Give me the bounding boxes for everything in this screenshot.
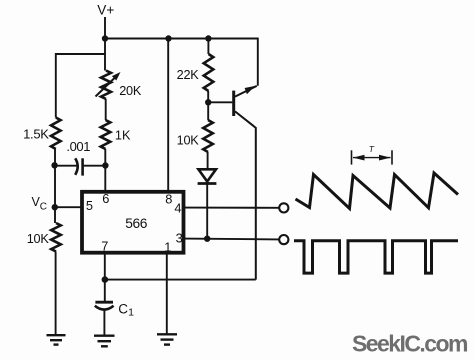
wire V+ stub xyxy=(104,17,106,39)
node junction dot F (22K / 10K / base) xyxy=(205,99,211,105)
wire 20K bottom to 1K top xyxy=(105,99,107,120)
svg-text:10K: 10K xyxy=(177,133,200,147)
svg-text:566: 566 xyxy=(125,216,147,231)
resistor R 1K xyxy=(101,120,111,149)
wire 1K bottom to IC pin 6 xyxy=(104,149,106,190)
wire 10K to ground xyxy=(55,252,57,336)
node junction dot A (V+ rail / 20K branch) xyxy=(102,35,108,41)
resistor R 1.5K xyxy=(51,118,61,150)
wire pin 1 to ground xyxy=(166,253,168,334)
wire diode cathode down to pin 3 net xyxy=(206,184,208,239)
capacitor .001 straight plate xyxy=(81,158,84,175)
svg-text:C: C xyxy=(118,301,128,316)
svg-text:20K: 20K xyxy=(119,84,142,98)
op IC U1 566 box xyxy=(82,192,184,253)
diode D1 cathode bar xyxy=(198,182,217,185)
transistor Q1 base bar xyxy=(232,91,235,116)
svg-text:22K: 22K xyxy=(177,68,200,82)
resistor R 22K xyxy=(204,54,214,91)
svg-text:4: 4 xyxy=(174,201,181,216)
wire pin 7 down to C1 xyxy=(104,253,106,302)
wire top rail xyxy=(105,39,258,86)
capacitor C1 top plate xyxy=(95,301,113,304)
resistor R 10K (right) xyxy=(203,120,213,152)
svg-text:3: 3 xyxy=(176,231,183,246)
node junction dot B (V+ rail / pin 8 branch) xyxy=(165,35,171,41)
wire 22K branch top xyxy=(207,39,209,55)
svg-text:C: C xyxy=(40,201,47,212)
capacitor C1 curved plate xyxy=(95,306,114,310)
wire rail to 20K top xyxy=(104,39,106,71)
transistor Q1 emitter xyxy=(235,86,257,97)
ground G3 xyxy=(157,334,177,344)
svg-text:8: 8 xyxy=(165,192,172,207)
wire left branch top (rail to 1.5K) xyxy=(56,54,105,118)
wire pin 3 to square terminal xyxy=(184,238,280,241)
transistor Q1 base wire xyxy=(208,101,232,103)
resistor R 10K (left) xyxy=(51,223,61,252)
ground G2 xyxy=(94,336,115,347)
node junction dot C (V+ rail / 22K branch) xyxy=(205,35,211,41)
svg-text:6: 6 xyxy=(102,191,109,206)
terminal circle T2 (square out) xyxy=(279,235,288,244)
node junction dot H (pin 7 / feedback wire) xyxy=(102,276,109,283)
resistor R 20K (variable) xyxy=(101,71,111,100)
svg-text:1.5K: 1.5K xyxy=(23,127,49,142)
svg-text:10K: 10K xyxy=(27,232,50,246)
wire VC to IC pin 5 xyxy=(55,206,81,208)
wire pin 4 to sawtooth terminal xyxy=(184,207,280,209)
svg-text:V+: V+ xyxy=(97,3,114,18)
svg-text:T: T xyxy=(369,144,375,154)
arrow of 20K potentiometer xyxy=(96,78,115,97)
node junction dot G (diode / pin 3 wire) xyxy=(204,236,210,242)
T period marker right tick xyxy=(391,150,393,164)
svg-text:1: 1 xyxy=(164,239,171,254)
capacitor .001 right wire xyxy=(83,165,106,167)
wire feedback bottom (pin7 dot to collector line) xyxy=(105,279,256,281)
svg-text:7: 7 xyxy=(101,238,108,253)
svg-text:SeekIC.com: SeekIC.com xyxy=(352,330,468,356)
svg-text:.001: .001 xyxy=(66,139,90,154)
node junction dot E (1.5K / cap .001 left) xyxy=(51,162,57,168)
svg-text:5: 5 xyxy=(86,198,93,213)
wire pin 8 from V+ rail xyxy=(167,39,169,191)
capacitor .001 left wire xyxy=(55,165,77,167)
diode D1 triangle xyxy=(198,169,216,181)
svg-text:1K: 1K xyxy=(115,129,131,143)
node junction dot D (1K / cap .001 right) xyxy=(102,162,108,168)
wire C1 to ground xyxy=(103,310,105,335)
node junction dot VC xyxy=(52,204,58,210)
wire 1.5K bottom down to VC and 10K xyxy=(54,149,56,223)
wire 10K bottom to diode anode xyxy=(207,152,209,170)
wire 22K bottom to 10K top xyxy=(207,91,209,120)
T period marker left tick xyxy=(351,150,353,164)
transistor Q1 collector xyxy=(235,111,256,279)
capacitor .001 curved plate xyxy=(75,158,78,175)
T period marker arrow line xyxy=(353,157,391,159)
ground G1 xyxy=(47,335,66,344)
terminal circle T1 (sawtooth out) xyxy=(279,203,288,212)
waveform square xyxy=(294,241,458,273)
svg-text:1: 1 xyxy=(128,307,134,319)
waveform sawtooth xyxy=(296,173,459,209)
